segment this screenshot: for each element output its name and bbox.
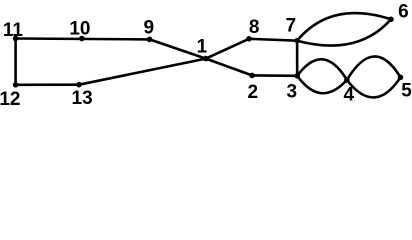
- wire 12-13: [16, 83, 79, 86]
- svg-text:13: 13: [72, 88, 93, 106]
- wire 13-1: [79, 59, 206, 85]
- svg-text:9: 9: [144, 18, 155, 39]
- wire 4-5 top arc: [347, 56, 401, 79]
- node 4: [344, 77, 350, 83]
- svg-text:10: 10: [69, 18, 90, 39]
- wire 7-3: [296, 41, 299, 76]
- node 2: [249, 73, 255, 79]
- wire 1-8: [206, 39, 249, 59]
- node 10: [79, 36, 85, 42]
- node 1: [203, 56, 209, 62]
- svg-text:3: 3: [287, 82, 298, 103]
- svg-text:6: 6: [398, 2, 409, 23]
- node 9: [147, 37, 153, 43]
- node 7: [294, 38, 300, 44]
- svg-text:12: 12: [0, 89, 20, 106]
- svg-text:7: 7: [286, 16, 297, 37]
- wire 9-1: [150, 39, 206, 58]
- node 5: [398, 75, 404, 81]
- node 6: [388, 17, 394, 23]
- wire 11-10-9: [16, 37, 150, 41]
- svg-text:5: 5: [401, 81, 412, 102]
- wire 11-12: [14, 39, 17, 85]
- wire 4-5 bottom arc: [347, 77, 401, 97]
- wire 3-4 top arc: [297, 59, 347, 80]
- svg-text:4: 4: [344, 85, 355, 106]
- node 12: [13, 82, 19, 88]
- svg-text:11: 11: [3, 20, 24, 41]
- wire 3-4 bottom arc: [297, 76, 347, 93]
- wire 1-2: [206, 59, 252, 76]
- node 13: [76, 82, 82, 88]
- svg-text:8: 8: [249, 17, 260, 38]
- wire 2-3: [252, 74, 297, 77]
- node 11: [13, 36, 19, 42]
- node 8: [246, 36, 252, 42]
- wire 7-6 bottom arc: [297, 19, 391, 45]
- wire 8-7: [249, 39, 297, 41]
- wire 7-6 top arc: [297, 13, 391, 41]
- node 3: [294, 73, 300, 79]
- svg-text:2: 2: [248, 82, 259, 103]
- svg-text:1: 1: [197, 37, 208, 58]
